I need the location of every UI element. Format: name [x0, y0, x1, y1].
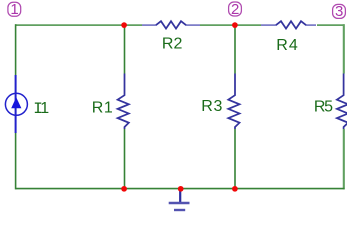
svg-text:R4: R4	[276, 37, 298, 54]
svg-text:1: 1	[10, 1, 18, 18]
svg-text:2: 2	[231, 1, 239, 18]
svg-text:1: 1	[40, 100, 49, 117]
svg-text:R5: R5	[314, 98, 333, 115]
svg-text:R2: R2	[162, 35, 183, 52]
svg-text:R3: R3	[201, 98, 222, 115]
svg-text:R1: R1	[92, 99, 113, 116]
svg-text:3: 3	[335, 3, 343, 20]
